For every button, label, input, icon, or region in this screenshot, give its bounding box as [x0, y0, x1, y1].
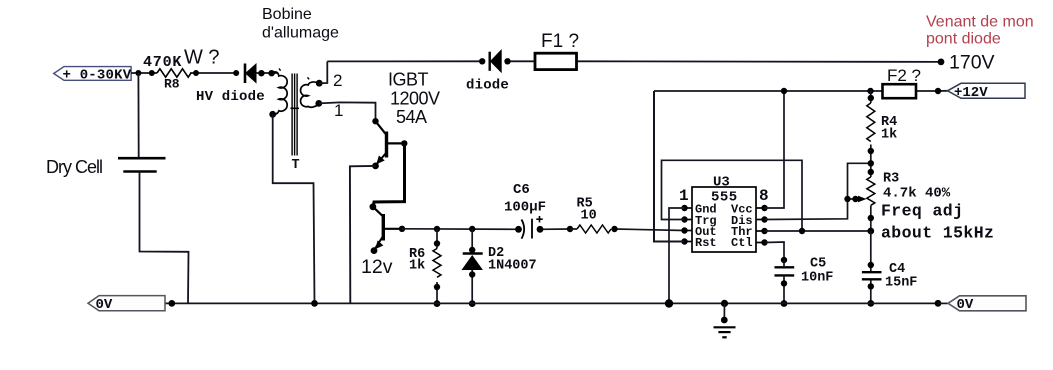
svg-text:Rst: Rst [695, 236, 717, 250]
pin Trg [681, 214, 716, 228]
fuse F2 [883, 66, 922, 98]
svg-text:100µF: 100µF [504, 200, 546, 216]
svg-text:1k: 1k [409, 259, 425, 274]
svg-text:W ?: W ? [184, 47, 220, 69]
svg-text:Ctl: Ctl [731, 236, 753, 250]
wire Ctl to C5 [765, 242, 785, 260]
svg-text:0V: 0V [957, 297, 974, 313]
svg-text:F2 ?: F2 ? [887, 66, 921, 85]
capacitor C5 [775, 257, 834, 307]
node +12V [935, 83, 1025, 101]
resistor R6 [409, 226, 441, 307]
svg-text:Venant de mon: Venant de mon [926, 14, 1034, 31]
svg-text:470K: 470K [143, 54, 182, 71]
pin Gnd [681, 202, 716, 216]
wire primary bottom to 0V rail [273, 114, 315, 303]
capacitor C4 [862, 231, 918, 307]
diode D-HV [196, 63, 265, 105]
wire +12V rail horizontal [654, 90, 948, 92]
wire 0V bottom rail [165, 302, 939, 304]
svg-text:R3: R3 [883, 172, 899, 187]
transistor Q1 [372, 121, 407, 169]
svg-text:1N4007: 1N4007 [488, 259, 537, 274]
svg-text:about 15kHz: about 15kHz [881, 224, 994, 243]
wire Gnd to 0V rail [669, 208, 685, 304]
svg-text:C5: C5 [810, 257, 826, 272]
wire secondary pin2 to 170V rail [319, 61, 327, 83]
svg-text:10: 10 [581, 209, 597, 224]
svg-text:HV diode: HV diode [196, 89, 265, 105]
potentiometer R3 [844, 172, 951, 235]
battery Dry Cell [46, 157, 166, 177]
svg-text:1200V: 1200V [390, 89, 440, 109]
svg-text:54A: 54A [396, 107, 427, 127]
resistor R4 [867, 88, 897, 177]
svg-text:0V: 0V [96, 297, 113, 313]
resistor R8 [143, 54, 191, 92]
wire Thr horizontal [765, 230, 872, 232]
wire Rst to +12V rail [654, 91, 685, 242]
wire Vcc to +12V rail [765, 91, 785, 208]
wire base drive horizontal [402, 229, 685, 231]
resistor R5 [567, 197, 618, 234]
wire Dis to R3 top [765, 163, 872, 219]
fuse F1 [535, 31, 579, 70]
svg-text:diode: diode [466, 78, 509, 94]
pin Out [681, 225, 716, 239]
svg-text:+ 0-30KV: + 0-30KV [63, 67, 132, 83]
svg-text:15nF: 15nF [885, 276, 917, 291]
node 170V [938, 52, 995, 74]
capacitor C6 [504, 182, 546, 239]
pin Vcc [731, 202, 768, 216]
svg-text:Bobine: Bobine [262, 6, 312, 23]
transistor Q2 [371, 207, 406, 254]
wire battery negative to 0V rail [140, 172, 189, 304]
svg-text:10nF: 10nF [801, 271, 833, 286]
svg-text:F1 ?: F1 ? [541, 31, 579, 52]
svg-text:T: T [292, 158, 300, 173]
wire 170V top rail [327, 60, 941, 63]
svg-text:4.7k 40%: 4.7k 40% [883, 186, 951, 202]
pin Thr [731, 225, 768, 239]
ground [714, 300, 736, 338]
wire Trg to Thr link [662, 160, 803, 231]
svg-text:d'allumage: d'allumage [262, 25, 339, 42]
pin Ctl [731, 236, 768, 250]
transformer T secondary winding [301, 77, 323, 107]
svg-text:R8: R8 [164, 77, 180, 92]
svg-text:U3: U3 [713, 175, 730, 191]
svg-text:pont diode: pont diode [926, 31, 1001, 48]
svg-text:+12V: +12V [954, 85, 988, 101]
node 0V left [88, 296, 165, 313]
svg-text:8: 8 [759, 187, 769, 205]
svg-text:C6: C6 [513, 182, 530, 198]
svg-text:170V: 170V [949, 52, 995, 74]
svg-text:12v: 12v [361, 256, 393, 278]
diode D2 [462, 226, 537, 307]
pin Dis [731, 214, 768, 228]
svg-text:IGBT: IGBT [388, 70, 429, 90]
wire Q1 base to Q2 collector (thick link) [373, 143, 404, 206]
pin Rst [681, 236, 716, 250]
svg-text:Dry Cell: Dry Cell [46, 157, 102, 177]
transformer core [291, 74, 300, 174]
diode D-top [466, 49, 511, 94]
svg-text:1k: 1k [881, 128, 897, 143]
svg-text:2: 2 [333, 71, 342, 90]
node +0-30KV [54, 67, 132, 84]
svg-text:1: 1 [679, 187, 689, 205]
IC U3 555 box [679, 175, 769, 253]
transformer T primary winding [269, 69, 287, 118]
wire Q1 emitter to 0V rail [350, 166, 376, 304]
svg-text:1: 1 [334, 101, 343, 120]
wire battery feed vertical [137, 73, 139, 158]
wire top-left horizontal [131, 72, 277, 74]
node 0V right [938, 296, 1026, 313]
wire secondary pin1 to Q1 collector [319, 102, 376, 121]
svg-text:Freq adj: Freq adj [881, 202, 963, 221]
junction dots on 0-30KV wire [135, 70, 274, 76]
